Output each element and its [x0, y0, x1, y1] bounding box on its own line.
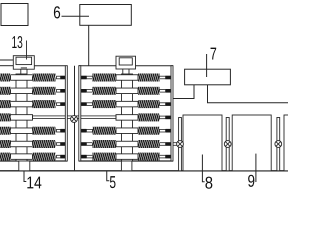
box 9 — [232, 115, 271, 171]
tower2 right pads — [166, 76, 172, 80]
tower 1 bottom line — [0, 160, 67, 162]
label 13 — [12, 36, 22, 48]
label leaders — [24, 154, 256, 182]
wire: leader of label 5 — [107, 171, 110, 181]
bar right of box 9 — [277, 118, 280, 171]
wire: box7 left leg — [173, 85, 194, 99]
wire: drop pipe from box 6 to tower 2 ledge — [88, 25, 90, 65]
tower2 bottom neck box — [121, 161, 131, 171]
column arms tower1 — [11, 75, 139, 160]
label 7 — [211, 48, 217, 60]
coils — [0, 74, 160, 161]
wire: leader of label 7 — [206, 54, 208, 77]
wire: pipe from image left edge to box 13 — [0, 59, 13, 61]
wire: box7 right leg to right edge — [208, 85, 289, 103]
label 8 — [205, 177, 212, 189]
label 5 — [110, 176, 116, 188]
box 8 — [183, 115, 222, 171]
tower2 top box neck — [122, 69, 124, 74]
tower2 right coils — [138, 74, 160, 82]
tower2 top box — [116, 56, 136, 69]
pads (dark blocks at walls) — [61, 76, 172, 159]
label 9 — [248, 175, 254, 187]
tower2 right wall — [171, 66, 173, 161]
tower1 right wall — [65, 66, 67, 161]
tower1 right coils — [33, 74, 56, 82]
tower 1 central column — [16, 74, 27, 161]
valve V1 between towers — [71, 116, 78, 123]
tower1 right rods — [57, 76, 61, 79]
tower2 left pads — [81, 76, 87, 80]
tower 1 (left, cut at image edge) : ledge — [0, 65, 13, 67]
box 7 — [185, 69, 231, 85]
wire: leader of label 6 — [62, 15, 90, 17]
label 14 — [27, 177, 41, 189]
wire: inter-tower vertical pipe — [74, 66, 76, 171]
valve V3 — [224, 141, 231, 148]
valve V2 — [177, 141, 184, 148]
box 13 (tower1 top box) — [13, 56, 34, 69]
wire: leader of label 13 — [26, 41, 28, 60]
valves — [71, 116, 282, 148]
tower 2 bottom line — [79, 160, 173, 162]
bar with valve, left of box 8 — [179, 118, 182, 171]
wire: full-width bottom baseline — [0, 170, 288, 172]
rods (thin double-line pipes) — [33, 76, 177, 158]
wire: inter-tower pipe row (row 4) — [33, 116, 117, 119]
tower1 bottom neck box — [19, 161, 30, 171]
column arms tower2 — [116, 75, 138, 81]
wire: stub from tower2 wall to valve V2 — [173, 143, 177, 146]
label 6 — [54, 6, 60, 18]
tower1 left coils (cut at image edge) — [0, 74, 11, 82]
tower 2 central column — [122, 74, 133, 161]
tower2 left wall — [79, 66, 81, 161]
box 6 — [80, 5, 132, 26]
top-left box (cut at image edge) — [1, 4, 28, 26]
box 10 (cut at image edge) — [284, 115, 293, 171]
bar between box 8 and box 9 — [226, 118, 229, 171]
valve V4 — [275, 141, 282, 148]
tower 2 (middle) : ledge — [79, 65, 116, 67]
wire: leader of label 14 — [24, 171, 26, 182]
tower2 left coils — [93, 74, 117, 82]
tower2 left rods — [86, 76, 92, 79]
tower1 right pads — [61, 76, 66, 80]
wire: leader of label 8 — [202, 155, 204, 182]
box13 neck — [20, 69, 22, 74]
wire: leader of label 9 — [255, 154, 257, 182]
tower2 right rods — [160, 76, 166, 79]
